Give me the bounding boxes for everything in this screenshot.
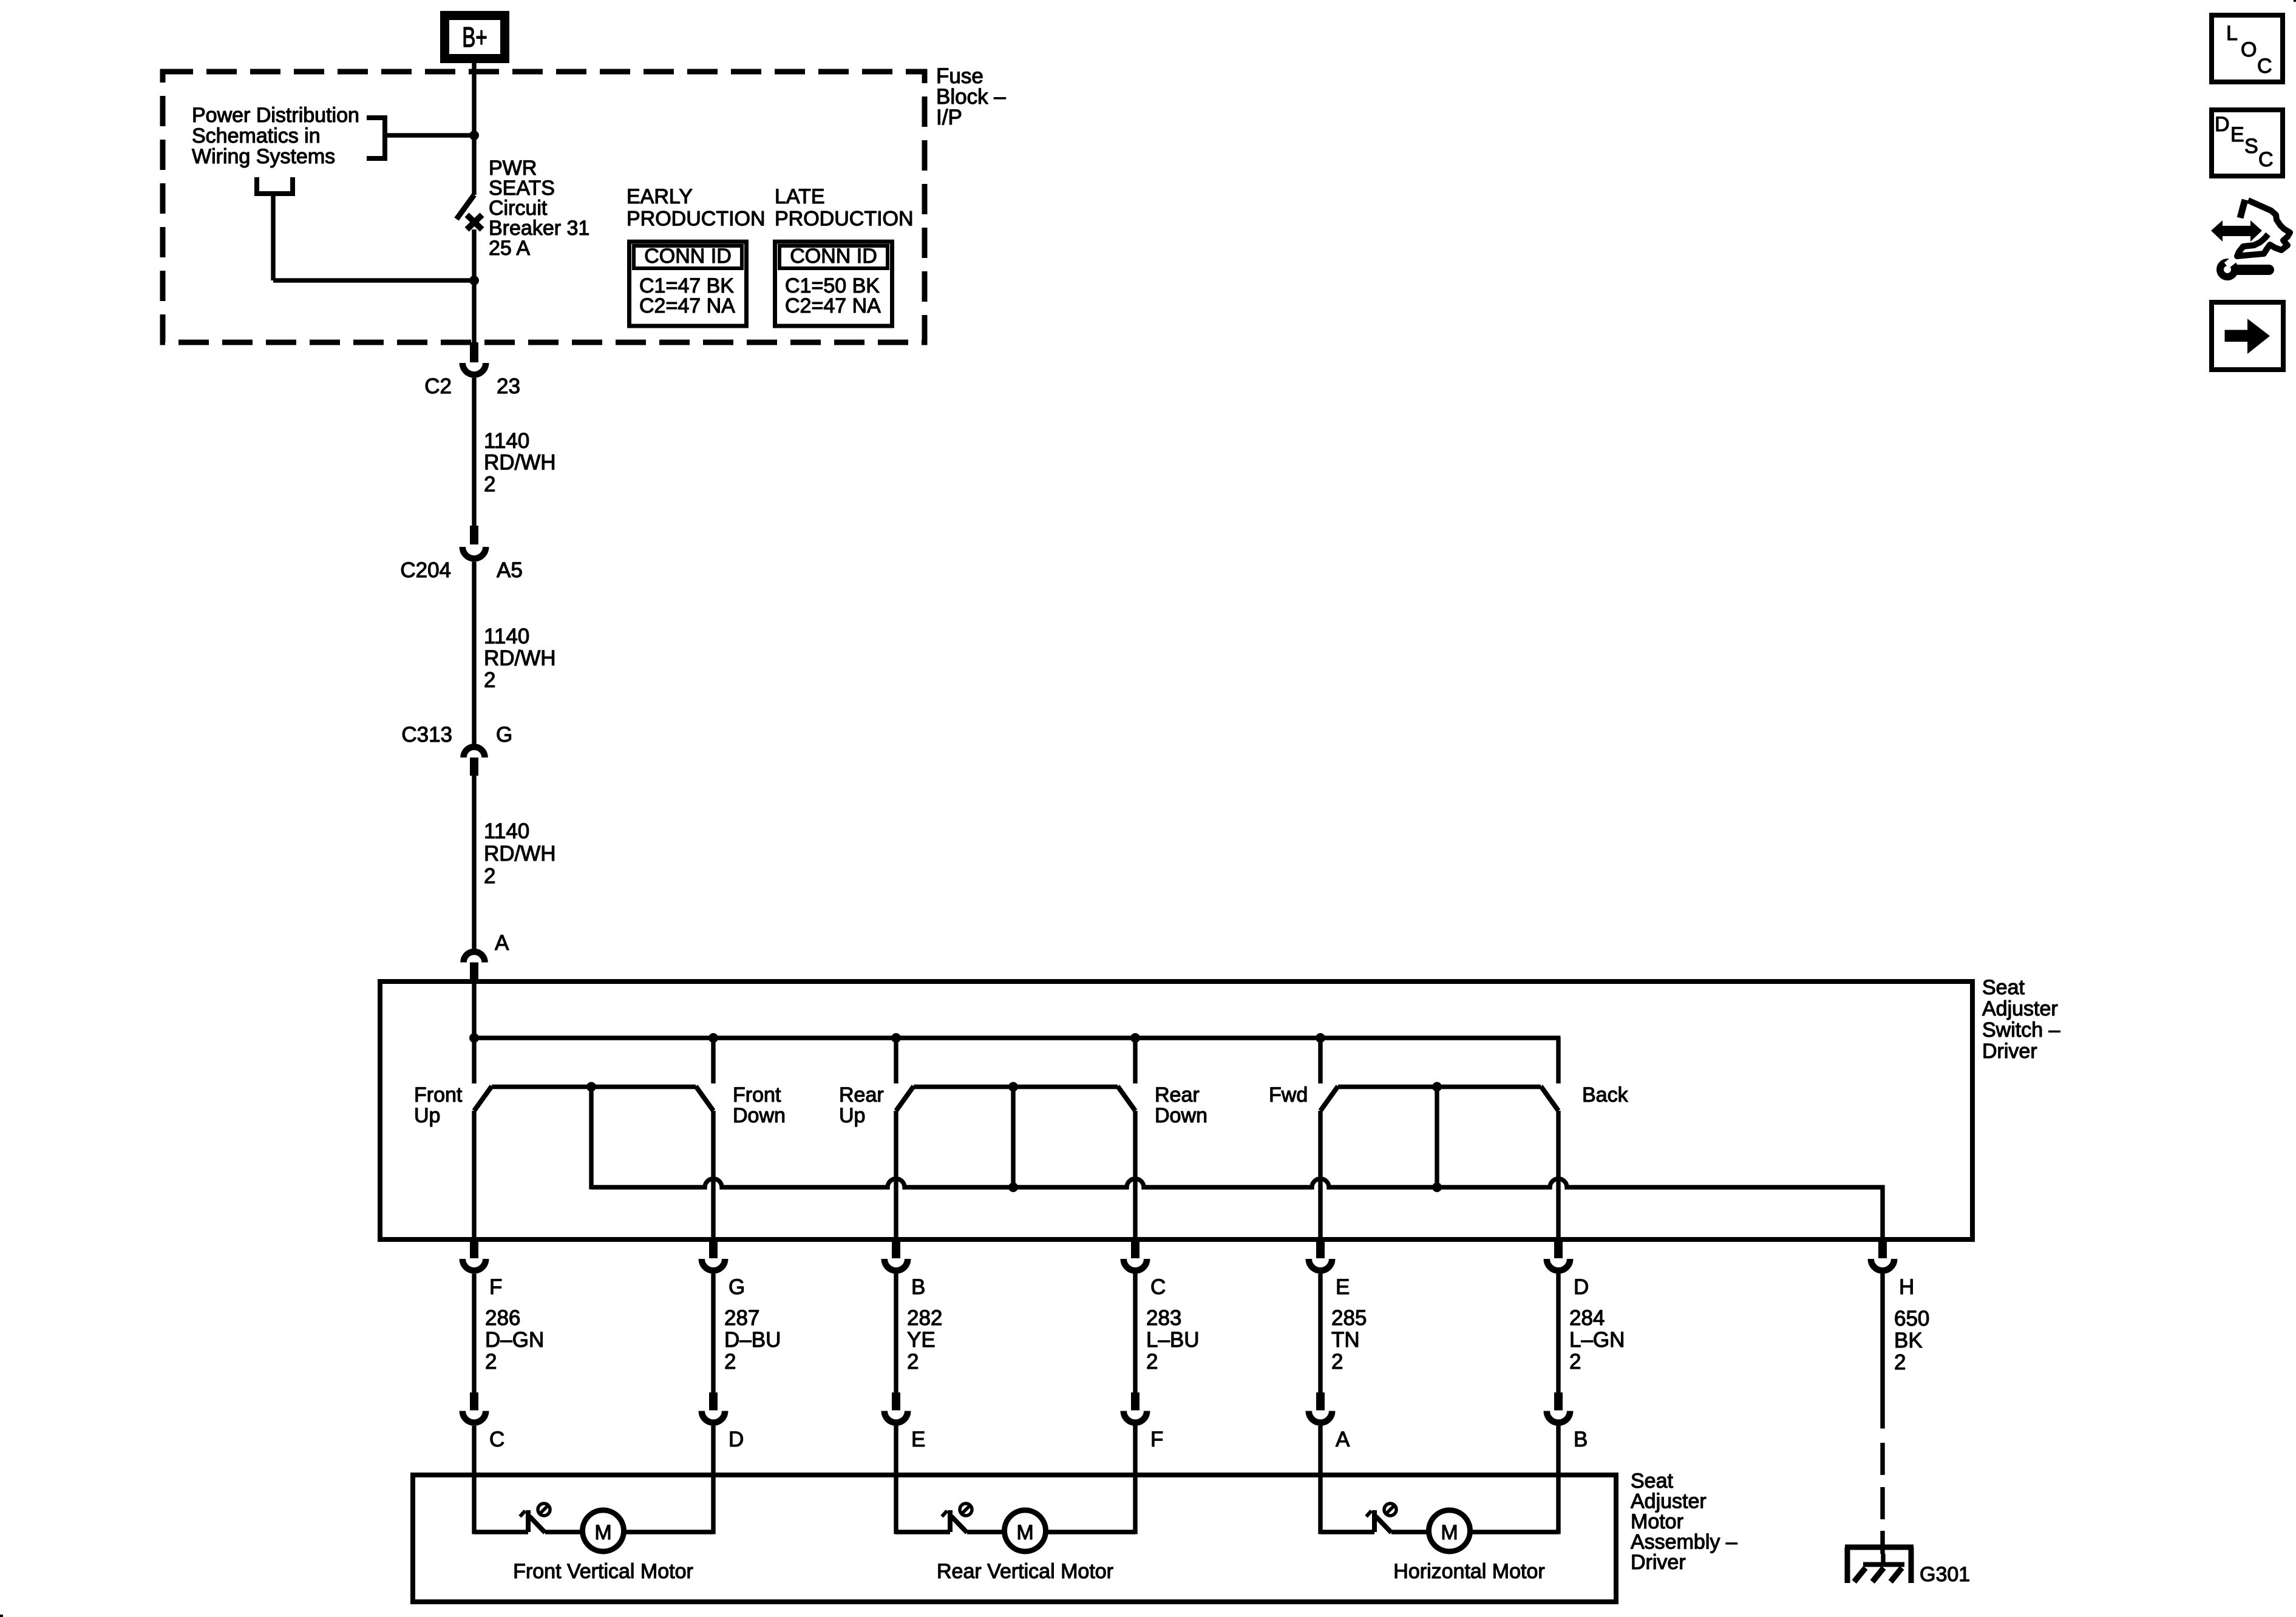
svg-text:RD/WH: RD/WH [484,842,556,866]
svg-text:Back: Back [1582,1083,1629,1107]
svg-text:650: 650 [1894,1307,1929,1331]
svg-text:Rear: Rear [1155,1083,1200,1107]
svg-text:L–GN: L–GN [1569,1328,1625,1352]
svg-text:C2=47 NA: C2=47 NA [639,294,735,317]
svg-text:S: S [2244,135,2258,158]
svg-text:E: E [911,1428,925,1451]
svg-text:Switch –: Switch – [1982,1019,2060,1042]
svg-text:PRODUCTION: PRODUCTION [627,208,766,231]
svg-text:I/P: I/P [936,106,962,129]
svg-text:C204: C204 [400,558,451,582]
svg-text:L–BU: L–BU [1146,1328,1200,1352]
svg-text:Up: Up [839,1104,865,1127]
svg-text:Front Vertical Motor: Front Vertical Motor [513,1560,693,1583]
svg-text:LATE: LATE [775,185,825,208]
svg-text:2: 2 [1331,1350,1343,1374]
svg-text:C2=47 NA: C2=47 NA [785,294,881,317]
svg-text:Down: Down [1155,1104,1207,1127]
svg-text:C313: C313 [401,723,452,747]
svg-text:Power Distribution: Power Distribution [192,104,359,127]
svg-text:H: H [1899,1275,1914,1299]
svg-text:Driver: Driver [1982,1040,2037,1063]
svg-text:Adjuster: Adjuster [1631,1490,1707,1513]
svg-text:B+: B+ [462,22,487,53]
svg-text:Seat: Seat [1982,976,2025,999]
svg-text:G301: G301 [1920,1563,1970,1586]
svg-text:Front: Front [733,1083,781,1107]
svg-text:C: C [2257,55,2272,78]
svg-text:G: G [496,723,512,747]
svg-text:Driver: Driver [1631,1551,1686,1574]
svg-text:Schematics in: Schematics in [192,124,321,147]
svg-text:B: B [911,1275,925,1299]
svg-text:2: 2 [1894,1351,1906,1374]
svg-text:C2: C2 [424,375,452,398]
svg-text:2: 2 [724,1350,736,1374]
svg-text:C: C [1150,1275,1166,1299]
svg-text:Assembly –: Assembly – [1631,1531,1737,1554]
svg-text:BK: BK [1894,1329,1923,1352]
svg-text:285: 285 [1331,1306,1367,1330]
svg-text:B: B [1574,1428,1588,1451]
svg-text:2: 2 [484,864,495,888]
svg-text:CONN ID: CONN ID [644,245,732,268]
svg-text:Horizontal Motor: Horizontal Motor [1393,1560,1544,1583]
svg-text:M: M [1016,1521,1033,1544]
svg-text:D: D [2215,113,2230,136]
svg-text:283: 283 [1146,1306,1181,1330]
svg-text:CONN ID: CONN ID [790,245,877,268]
svg-text:D–GN: D–GN [485,1328,544,1352]
svg-text:Motor: Motor [1631,1510,1683,1533]
svg-text:A: A [1336,1428,1350,1451]
svg-text:Front: Front [414,1083,463,1107]
svg-text:23: 23 [497,375,520,398]
svg-text:M: M [1441,1521,1458,1544]
svg-text:Adjuster: Adjuster [1982,997,2058,1020]
svg-text:2: 2 [1146,1350,1158,1374]
svg-text:25 A: 25 A [489,237,530,260]
svg-text:Seat: Seat [1631,1470,1673,1493]
svg-text:C: C [2258,148,2274,171]
svg-text:F: F [1150,1428,1163,1451]
svg-text:287: 287 [724,1306,759,1330]
svg-text:Down: Down [733,1104,786,1127]
svg-text:1140: 1140 [484,819,529,843]
svg-text:YE: YE [907,1328,936,1352]
svg-text:286: 286 [485,1306,520,1330]
svg-text:2: 2 [484,472,495,496]
svg-text:D–BU: D–BU [724,1328,781,1352]
svg-text:1140: 1140 [484,429,529,453]
svg-text:O: O [2241,38,2257,61]
svg-text:RD/WH: RD/WH [484,646,556,670]
svg-text:Wiring Systems: Wiring Systems [192,145,335,168]
svg-text:M: M [594,1521,611,1544]
svg-text:PRODUCTION: PRODUCTION [775,208,914,231]
svg-text:2: 2 [1569,1350,1581,1374]
svg-text:2: 2 [907,1350,919,1374]
svg-text:Rear: Rear [839,1083,884,1107]
svg-text:E: E [1336,1275,1350,1299]
svg-text:Up: Up [414,1104,440,1127]
svg-text:A: A [495,931,509,955]
svg-text:E: E [2230,123,2244,146]
svg-text:C: C [489,1428,504,1451]
svg-text:EARLY: EARLY [627,185,693,208]
svg-text:Fwd: Fwd [1269,1083,1308,1107]
svg-text:TN: TN [1331,1328,1360,1352]
svg-text:284: 284 [1569,1306,1605,1330]
svg-text:L: L [2226,22,2238,45]
svg-text:282: 282 [907,1306,942,1330]
svg-text:D: D [729,1428,744,1451]
svg-text:2: 2 [485,1350,497,1374]
svg-text:G: G [729,1275,745,1299]
svg-text:F: F [489,1275,502,1299]
svg-text:2: 2 [484,668,495,692]
svg-text:RD/WH: RD/WH [484,451,556,475]
svg-text:1140: 1140 [484,625,529,648]
svg-text:A5: A5 [497,558,523,582]
svg-text:Rear Vertical Motor: Rear Vertical Motor [937,1560,1113,1583]
svg-text:D: D [1574,1275,1589,1299]
